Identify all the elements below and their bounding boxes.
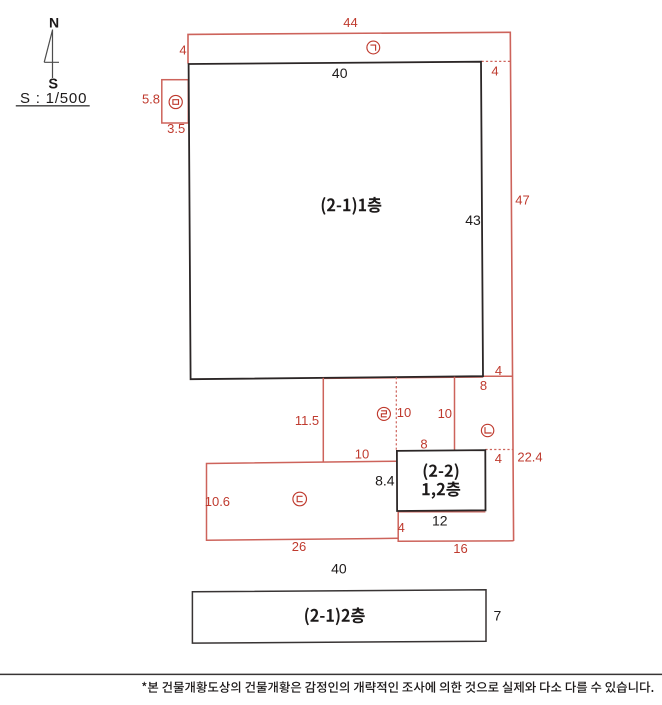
svg-text:8: 8 [480, 378, 487, 393]
svg-text:47: 47 [515, 193, 529, 208]
svg-text:16: 16 [453, 541, 467, 556]
svg-text:5.8: 5.8 [142, 92, 160, 107]
svg-text:43: 43 [465, 212, 481, 228]
svg-text:7: 7 [494, 607, 502, 623]
svg-text:26: 26 [292, 539, 306, 554]
svg-text:S : 1/500: S : 1/500 [20, 90, 87, 107]
svg-text:40: 40 [331, 561, 347, 577]
svg-text:22.4: 22.4 [517, 450, 542, 465]
svg-text:10: 10 [355, 447, 369, 462]
svg-text:4: 4 [398, 520, 405, 535]
svg-text:8: 8 [420, 437, 427, 452]
svg-text:11.5: 11.5 [295, 413, 319, 428]
svg-text:10: 10 [397, 405, 411, 420]
svg-text:44: 44 [343, 15, 357, 30]
svg-text:10.6: 10.6 [205, 494, 230, 509]
svg-text:8.4: 8.4 [375, 472, 395, 488]
svg-text:40: 40 [332, 65, 348, 81]
svg-text:4: 4 [495, 451, 502, 466]
svg-text:12: 12 [432, 512, 448, 528]
svg-text:4: 4 [495, 363, 502, 378]
svg-text:4: 4 [491, 63, 498, 78]
svg-text:N: N [49, 15, 59, 31]
svg-text:4: 4 [179, 42, 186, 57]
svg-text:10: 10 [438, 406, 452, 421]
svg-text:3.5: 3.5 [167, 121, 185, 136]
